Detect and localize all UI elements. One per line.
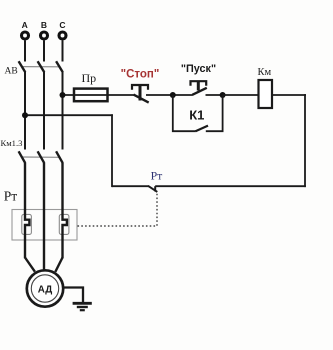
stop button NC blade <box>134 95 149 103</box>
wire bottom rail left segment <box>112 185 149 187</box>
wire phase B mid <box>43 72 45 150</box>
wire phase C through heater <box>63 163 67 258</box>
svg-text:К1: К1 <box>189 107 204 122</box>
wire return riser <box>111 114 113 187</box>
svg-text:Пр: Пр <box>82 71 97 85</box>
breaker AB blade pole C <box>56 61 63 72</box>
wire return to phase A <box>25 114 113 116</box>
svg-text:АД: АД <box>38 284 52 295</box>
wire phase A through heater <box>25 163 29 258</box>
breaker AB linkage <box>22 66 61 68</box>
wire bottom rail right segment <box>155 185 306 187</box>
contact K1 branch left wire <box>173 95 196 131</box>
heater element outline phase A <box>22 214 32 234</box>
stop button cap <box>132 85 148 90</box>
wire motor to ground <box>63 288 83 304</box>
thermal contact Rt tick <box>154 186 156 191</box>
wire phase A top <box>24 40 26 61</box>
svg-text:С: С <box>59 20 65 30</box>
wire phase A mid <box>24 72 26 150</box>
svg-text:"Стоп": "Стоп" <box>121 68 160 80</box>
wire node2 to coil Km <box>223 94 259 96</box>
wire start button to node2 <box>206 94 223 96</box>
junction dot on phase A <box>22 112 28 118</box>
contactor Km1.3 blade pole B <box>38 151 45 163</box>
motor AD inner circle <box>31 275 58 302</box>
wire fuse to stop button <box>63 94 134 96</box>
wire phase B straight <box>43 163 45 271</box>
stop button stem <box>139 85 142 101</box>
fuse Pr body <box>74 89 108 102</box>
contactor Km1.3 linkage <box>22 156 61 158</box>
node junction dot right of start button <box>220 92 226 98</box>
svg-text:Км1.3: Км1.3 <box>1 138 23 148</box>
node junction dot left of start button <box>170 92 176 98</box>
wire coil Km to right rail <box>272 94 306 96</box>
thermal relay box <box>12 210 77 241</box>
wire phase B top <box>43 40 45 61</box>
wire phase C top <box>62 40 64 61</box>
start button NO blade <box>192 88 207 95</box>
start button cap <box>191 81 207 86</box>
svg-text:Км: Км <box>258 67 272 78</box>
motor AD outer circle <box>27 270 63 306</box>
wire phase C mid <box>62 72 64 150</box>
contactor coil Km body <box>259 80 273 108</box>
ground bar 2 <box>77 306 88 308</box>
heater element outline phase C <box>59 214 69 234</box>
terminal A <box>22 32 29 39</box>
breaker AB blade pole A <box>19 61 26 72</box>
contactor Km1.3 blade pole A <box>19 151 26 163</box>
svg-text:А: А <box>22 20 28 30</box>
start button stem <box>197 81 200 90</box>
breaker AB blade pole B <box>38 61 45 72</box>
wire stop button to node1 <box>146 94 193 96</box>
contact K1 NO blade <box>196 126 209 132</box>
svg-text:Рт: Рт <box>4 188 18 203</box>
svg-text:В: В <box>41 20 47 30</box>
ground bar 3 <box>80 309 85 311</box>
thermal contact Rt NC blade <box>148 186 157 192</box>
contact K1 branch right wire <box>206 95 223 131</box>
wire phase C slant to motor <box>55 258 62 272</box>
svg-text:"Пуск": "Пуск" <box>181 63 216 75</box>
junction dot on phase C <box>60 92 66 98</box>
terminal B <box>41 32 48 39</box>
terminal C <box>59 32 66 39</box>
svg-text:АВ: АВ <box>5 67 18 77</box>
ground bar 1 <box>73 302 92 305</box>
contactor Km1.3 blade pole C <box>56 151 63 163</box>
wire phase A slant to motor <box>25 258 35 272</box>
dotted mechanical link from thermal relay <box>78 193 158 226</box>
wire right rail down <box>304 94 306 187</box>
svg-text:Рт: Рт <box>151 169 163 183</box>
